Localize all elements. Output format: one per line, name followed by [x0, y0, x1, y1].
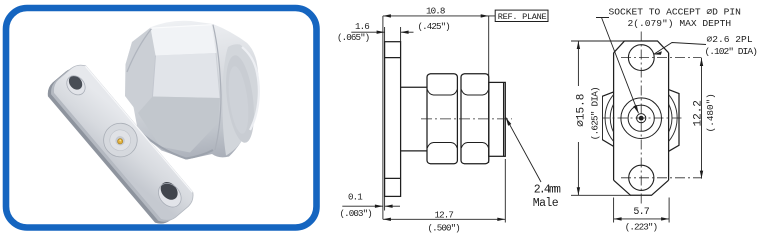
lower mounting hole — [154, 179, 186, 212]
barrel front section — [489, 82, 506, 156]
12.2 dimension line — [701, 58, 703, 179]
0.1 arrows — [375, 205, 383, 208]
svg-text:∅2.6 2PL: ∅2.6 2PL — [707, 34, 753, 45]
barrel chamfer line — [503, 82, 505, 156]
svg-text:(.065″): (.065″) — [337, 32, 369, 43]
REF vertical line — [488, 16, 490, 163]
left bulge chamfer arc — [605, 95, 614, 142]
white backing for dia15.8 rotated text over dim line — [573, 86, 602, 142]
body base blob (cylinder+hex) — [0, 0, 1, 1]
center circles — [621, 98, 662, 139]
hex lower facet — [138, 97, 220, 153]
mounting hole top — [628, 45, 654, 71]
nut front chamfer crease — [127, 29, 152, 72]
0.1 leader lines — [342, 205, 383, 207]
svg-text:1.6: 1.6 — [355, 21, 369, 32]
1.6 extension lines — [384, 27, 386, 42]
middle view arrowheads — [375, 14, 511, 221]
hex1 facet line top — [427, 90, 457, 96]
2.4mm Male leader — [506, 118, 541, 183]
svg-text:REF. PLANE: REF. PLANE — [498, 12, 547, 22]
12.7 dimension line — [383, 218, 505, 220]
gold center pin — [117, 138, 124, 145]
hex nut 2 outline — [461, 74, 489, 164]
nut facet seam vertical 1 — [153, 56, 156, 97]
REF. PLANE box — [495, 10, 548, 21]
right bulge chamfer arc — [669, 95, 678, 142]
svg-text:2.4mm: 2.4mm — [534, 184, 561, 197]
12.2 arrows — [700, 58, 703, 66]
1.6 arrows — [377, 31, 385, 34]
hex bottom dark edge — [139, 131, 213, 159]
hex front-left facet — [125, 28, 156, 113]
socket note leader — [596, 18, 639, 114]
right view arrowheads — [577, 41, 704, 221]
svg-text:10.8: 10.8 — [426, 6, 445, 17]
dia 15.8 dimension line — [577, 41, 579, 195]
bottom cap — [614, 180, 669, 195]
flange corner-cut line bottom — [385, 177, 401, 179]
svg-text:(.500″): (.500″) — [428, 223, 460, 234]
plate front face — [0, 0, 1, 1]
cap rim highlight — [242, 47, 259, 130]
dia 2.6 leader — [654, 43, 706, 55]
svg-text:(.003″): (.003″) — [340, 208, 372, 219]
left hex bulge — [602, 92, 613, 146]
hex nut 1 outline — [427, 74, 457, 164]
svg-text:2(.079″) MAX DEPTH: 2(.079″) MAX DEPTH — [628, 18, 732, 29]
cap center shade — [225, 65, 251, 135]
flange corner-cut line top — [385, 57, 401, 59]
blue rounded frame — [6, 8, 317, 228]
flange plate — [43, 59, 198, 229]
10.8 dimension line — [383, 15, 495, 17]
svg-text:Male: Male — [533, 197, 559, 210]
0.1 extension line below flange — [384, 196, 386, 210]
flange flats — [613, 53, 615, 180]
nut-cylinder seam ring — [213, 25, 221, 150]
svg-text:5.7: 5.7 — [633, 207, 649, 218]
svg-text:∅15.8: ∅15.8 — [576, 94, 588, 127]
svg-text:0.1: 0.1 — [348, 191, 363, 202]
svg-text:(.480″): (.480″) — [705, 93, 716, 132]
middle view dimension texts — [337, 6, 460, 234]
5.7 arrows — [614, 217, 622, 220]
svg-text:(.625″ DIA): (.625″ DIA) — [589, 87, 600, 140]
12.7 arrows — [383, 218, 391, 221]
2.4mm male leader arrow — [506, 118, 512, 126]
neck bottom — [401, 150, 427, 152]
top facet leading highlight — [151, 25, 212, 29]
socket leader arrow — [633, 105, 638, 113]
svg-text:12.7: 12.7 — [435, 210, 454, 221]
svg-text:(.425″): (.425″) — [418, 21, 450, 32]
plate top edge highlight — [85, 66, 192, 192]
12.7 right extension line — [504, 159, 506, 223]
dia2.6 leader arrow — [654, 51, 662, 55]
hex1 facet line bottom — [427, 143, 457, 149]
5.7 extension lines — [613, 198, 615, 223]
neck top — [401, 86, 427, 88]
5.7 dimension line — [614, 218, 670, 220]
dia15.8 arrows — [577, 41, 580, 49]
svg-text:12.2: 12.2 — [692, 100, 704, 126]
hex2 facet line top — [461, 90, 488, 96]
hex top facet (bright) — [151, 24, 217, 55]
10.8 arrows — [383, 14, 391, 17]
mounting hole bottom — [629, 165, 654, 190]
1.6 dimension line — [351, 31, 384, 33]
barrel end cap face — [222, 44, 258, 155]
axis centerline — [421, 118, 512, 120]
dia 15.8 extension lines — [571, 40, 630, 42]
upper mounting hole — [63, 72, 89, 98]
ref plane extension line (0.1 offset) — [382, 16, 384, 219]
plate thickness (lower-left band) — [43, 63, 192, 228]
flange side profile — [385, 42, 401, 197]
right view note texts — [609, 6, 758, 56]
cap inner face — [222, 54, 259, 145]
svg-text:(.102″ DIA): (.102″ DIA) — [705, 46, 758, 57]
hex front-top facet — [153, 53, 221, 98]
right hex bulge — [669, 90, 679, 152]
hex2 facet line bottom — [461, 143, 488, 149]
svg-text:SOCKET TO ACCEPT ∅D PIN: SOCKET TO ACCEPT ∅D PIN — [609, 6, 741, 17]
center boss — [97, 116, 144, 163]
centerlines — [600, 32, 702, 205]
top cap — [614, 41, 669, 53]
svg-text:(.223″): (.223″) — [625, 221, 658, 232]
